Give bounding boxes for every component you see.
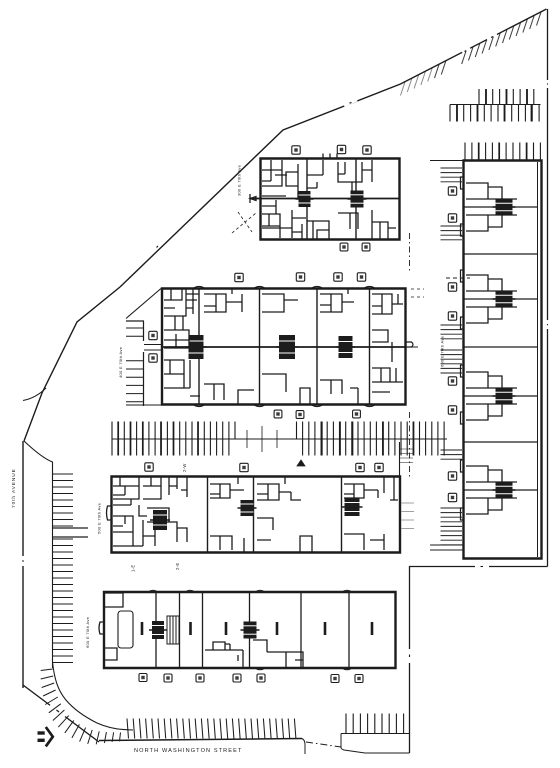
- building 4 south rooms: [205, 640, 303, 668]
- building 3 unit4 rooms and stair: [342, 498, 363, 516]
- fence line west of right building top: [430, 160, 464, 162]
- 70th Avenue parking comb: [53, 474, 74, 663]
- building 2 outline: [162, 289, 406, 405]
- fence from central lot to building 3 NE corner: [399, 442, 401, 476]
- property line west bend: [24, 287, 120, 441]
- building 4 stair core mid: [241, 622, 260, 639]
- building 3 unit2 rooms: [210, 477, 244, 552]
- north parking lot double row: [450, 89, 541, 122]
- street centerline dashes: [306, 742, 341, 747]
- central lot sparse mid ticks: [247, 426, 277, 452]
- building 4 porch bumps: [148, 590, 352, 670]
- north lot accent ticks: [457, 89, 532, 122]
- building 3 unit2 stair core: [238, 500, 257, 516]
- patio ticks east of building 3 fence: [400, 449, 413, 463]
- building 4 label boxes below: [139, 674, 147, 682]
- building 2 bottom line extension west: [126, 404, 162, 406]
- right building stair cores: [493, 200, 516, 215]
- building 2 label boxes below: [274, 410, 282, 418]
- building 1 outline: [261, 159, 400, 240]
- pathway dash-dot between buildings and right building: [409, 233, 411, 478]
- SW corner fan parking ticks: [41, 669, 121, 744]
- building 4 west unit garage: [118, 611, 133, 648]
- rb-top comb accents: [479, 143, 527, 161]
- building 2 left unit rooms: [164, 289, 200, 396]
- building 4 stair core west: [149, 621, 167, 639]
- angled parking hatches along NE diagonal: [435, 12, 542, 78]
- building 1 dimension arrow west: [250, 194, 256, 203]
- right building inner face of east wall: [537, 162, 539, 557]
- building 3 west bay bump: [107, 506, 112, 520]
- building 2 east wall tab: [406, 342, 414, 347]
- building 2 center party wall: [162, 346, 406, 348]
- building 2 porch bumps bottom: [193, 405, 376, 407]
- 70th Avenue driveway lines: [53, 528, 89, 537]
- right building west wall jogs: [461, 177, 464, 520]
- svg-text:2-E: 2-E: [175, 563, 180, 570]
- building 2 right unit rooms: [372, 294, 403, 392]
- SW corner curb arc: [53, 662, 134, 730]
- svg-text:NORTH WASHINGTON STREET: NORTH WASHINGTON STREET: [134, 748, 243, 754]
- building 3 left stair core: [150, 510, 170, 530]
- right building unit division walls: [465, 207, 538, 490]
- building 3 apex mark above: [297, 460, 305, 466]
- svg-text:2-W: 2-W: [182, 463, 187, 472]
- right building unit label boxes: [448, 187, 456, 195]
- building 3 outline: [112, 477, 401, 553]
- building 2 label boxes above: [235, 273, 243, 281]
- building 1 mid unit rooms: [307, 160, 329, 239]
- south comb west end curb drop: [302, 739, 305, 755]
- building 3 unit3 rooms: [257, 477, 312, 552]
- courtyard wedge line to building 2 corner: [126, 289, 161, 319]
- walkway to building 2 west entry: [144, 345, 162, 351]
- driveway fillet curve at NW: [23, 388, 46, 401]
- walkway dashes west of right building: [446, 277, 470, 279]
- courtyard comb west of building 2: [126, 328, 143, 402]
- building 1 left unit rooms: [262, 160, 306, 239]
- building 1 roof tick marks: [323, 154, 337, 159]
- building 1 right unit rooms: [338, 160, 396, 239]
- central lot aisle dashes: [240, 438, 294, 440]
- courtyard fence west of building 2: [126, 321, 144, 406]
- building 1 label boxes above: [292, 146, 300, 154]
- faint ticks east of building 3: [402, 503, 415, 529]
- svg-text:1-E: 1-E: [131, 565, 136, 572]
- building 4 unit center ticks: [141, 622, 144, 635]
- right building south walkway stubs: [430, 545, 464, 550]
- property line NE diagonal: [120, 9, 547, 287]
- north arrow: [38, 727, 53, 746]
- building 3 label boxes above: [145, 463, 153, 471]
- building 2 unit3 rooms: [262, 294, 310, 404]
- building 4 division walls: [156, 592, 349, 668]
- south east curb: [341, 734, 410, 754]
- patio fences west of right building: [441, 168, 463, 545]
- building 2 stair cores: [186, 335, 207, 359]
- building 3 division walls: [208, 477, 342, 552]
- svg-text:600 E 70th Ave: 600 E 70th Ave: [85, 616, 90, 648]
- survey cross dashes near building 1: [232, 212, 256, 233]
- svg-text:600 E 70th Ave: 600 E 70th Ave: [440, 335, 445, 367]
- svg-text:70th AVENUE: 70th AVENUE: [11, 468, 17, 508]
- building 2 unit2 rooms: [204, 289, 254, 404]
- building 2 porch bumps top: [193, 287, 376, 289]
- label boxes at west walkway: [149, 331, 157, 339]
- property line west vertical: [22, 441, 24, 688]
- south parking comb east: [341, 714, 409, 734]
- central lot heavier stripes: [118, 422, 413, 456]
- svg-text:500 E 70th Ave: 500 E 70th Ave: [97, 502, 102, 534]
- building 2 center wall extension to right building: [406, 346, 419, 348]
- building 4 west wall bump: [99, 622, 104, 634]
- right building unit interiors: [466, 183, 517, 514]
- 70th Avenue inner curb: [24, 441, 53, 668]
- svg-text:300 E 70th Ave: 300 E 70th Ave: [237, 164, 242, 196]
- building 1 stair cores: [296, 191, 314, 207]
- right building outline: [464, 161, 542, 559]
- building 1 label boxes below: [340, 243, 348, 251]
- building 4 outline: [104, 592, 396, 668]
- building 1 division walls: [307, 159, 356, 239]
- svg-text:400 E 70th Ave: 400 E 70th Ave: [118, 346, 123, 378]
- property line SW chamfer: [23, 685, 99, 742]
- south-east boundary step: [410, 567, 548, 754]
- building 3 left unit rooms: [113, 477, 187, 546]
- building 4 stair strip: [167, 616, 179, 644]
- parking row north of right building: [465, 143, 540, 161]
- property line dash gaps on diagonal: [152, 35, 497, 252]
- building 2 unit4 rooms: [320, 289, 358, 404]
- south parking comb west: [99, 739, 302, 741]
- central parking lot double row: [112, 422, 447, 456]
- building 2 division walls: [199, 289, 370, 404]
- right property line: [547, 9, 549, 567]
- building 1 center party wall: [250, 198, 400, 200]
